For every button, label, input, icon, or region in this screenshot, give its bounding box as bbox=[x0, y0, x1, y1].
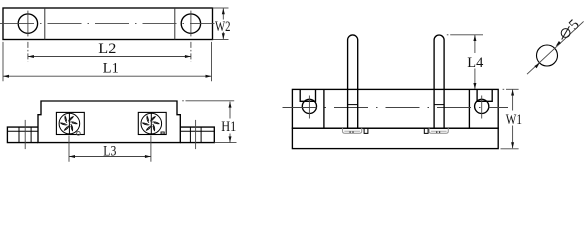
left pin bbox=[348, 35, 358, 128]
end block separator right bbox=[174, 8, 176, 40]
svg-text:L3: L3 bbox=[103, 144, 116, 160]
end block separator left bbox=[44, 8, 46, 40]
phi5 arrow lower bbox=[534, 63, 539, 68]
hole right bbox=[181, 14, 200, 33]
H1 extension line top (dash-dot) bbox=[182, 100, 184, 102]
left screw bracket bbox=[56, 112, 84, 134]
left block circle vertical centerline bbox=[308, 96, 310, 119]
L1 extension line left bbox=[2, 42, 4, 81]
L4 dimension line bbox=[474, 35, 476, 53]
svg-text:L2: L2 bbox=[98, 41, 116, 57]
phi5 detail circle bbox=[537, 45, 558, 66]
svg-text:L1: L1 bbox=[103, 60, 119, 76]
right block left edge bbox=[468, 89, 470, 128]
dimension texts bbox=[98, 17, 583, 160]
phi5 arrow upper bbox=[556, 41, 561, 46]
L1 dimension line bbox=[3, 75, 212, 77]
L3 dimension line bbox=[69, 156, 151, 158]
hole right vertical centerline bbox=[190, 11, 192, 37]
left tab inner horizontal line bbox=[7, 130, 38, 132]
W2 extension line bottom bbox=[213, 39, 229, 41]
horizontal centerline bbox=[0, 23, 215, 25]
right tab hole line 1 bbox=[189, 127, 191, 143]
left pin foot inner line bbox=[344, 130, 360, 132]
H1 dimension line bbox=[229, 102, 231, 119]
right tab hole line 2 bbox=[200, 127, 202, 143]
right screw bracket bbox=[138, 112, 166, 134]
right pin foot bbox=[429, 128, 448, 133]
L2 extension centerline left bbox=[27, 42, 29, 62]
W1 extension line top (dash-dot) bbox=[503, 88, 505, 90]
right block circle vertical centerline bbox=[481, 96, 483, 119]
bar outline bbox=[3, 8, 213, 40]
left tab bbox=[7, 127, 38, 143]
L3 extension line left (screw centerline) bbox=[68, 136, 70, 162]
right screw small mark bbox=[161, 132, 164, 134]
left block right edge bbox=[323, 89, 325, 128]
hole left vertical centerline bbox=[27, 11, 29, 37]
right screw axis line bbox=[150, 112, 152, 134]
L4 extension line top bbox=[447, 34, 449, 36]
left pin tick bbox=[348, 104, 358, 106]
base slab bbox=[292, 128, 498, 148]
right pin slot bbox=[424, 128, 428, 133]
svg-text:W1: W1 bbox=[506, 112, 522, 128]
phi glyph circle bbox=[561, 29, 570, 38]
left tab hole line 2 bbox=[30, 127, 32, 143]
right pin foot inner line bbox=[431, 130, 447, 132]
left screw small circle bbox=[77, 132, 81, 136]
left block circle bbox=[302, 99, 316, 113]
hole left bbox=[18, 14, 37, 33]
W2 extension line top bbox=[213, 7, 229, 9]
body outline with stepped corners bbox=[38, 101, 180, 143]
right pin bbox=[434, 35, 444, 128]
left pin foot hatch bbox=[349, 131, 351, 133]
right pin foot hatch bbox=[436, 131, 438, 133]
W1 extension line bottom bbox=[501, 148, 519, 150]
upper body outline bbox=[292, 89, 498, 128]
L2 extension centerline right bbox=[190, 42, 192, 62]
right tab bbox=[180, 127, 214, 143]
right pin tick bbox=[434, 104, 444, 106]
left screw head circle bbox=[59, 113, 80, 134]
right tab inner horizontal line bbox=[180, 130, 214, 132]
phi glyph slash bbox=[562, 26, 570, 39]
L2 dimension line bbox=[28, 56, 191, 58]
right tab centerline bbox=[195, 120, 197, 149]
right screw head circle bbox=[141, 113, 162, 134]
left pin slot bbox=[364, 128, 368, 133]
right block circle bbox=[475, 99, 489, 113]
right screw star bbox=[142, 116, 159, 132]
svg-text:H1: H1 bbox=[221, 119, 236, 135]
L3 extension line right (screw centerline) bbox=[150, 136, 152, 162]
svg-text:L4: L4 bbox=[467, 55, 483, 71]
H1 extension line bottom bbox=[214, 142, 236, 144]
left screw axis line bbox=[68, 112, 70, 134]
L1 extension line right bbox=[211, 42, 213, 81]
left block notch bbox=[300, 89, 315, 101]
phi5 dimension line bbox=[527, 21, 584, 74]
right block notch bbox=[477, 89, 492, 101]
left screw star bbox=[60, 116, 77, 132]
left tab centerline bbox=[24, 120, 26, 149]
svg-text:W2: W2 bbox=[215, 19, 231, 35]
horizontal centerline bbox=[283, 107, 509, 109]
left tab hole line 1 bbox=[18, 127, 20, 143]
W1 dimension line bbox=[512, 90, 514, 111]
W2 dimension line bbox=[222, 8, 224, 19]
left pin foot bbox=[343, 128, 362, 133]
